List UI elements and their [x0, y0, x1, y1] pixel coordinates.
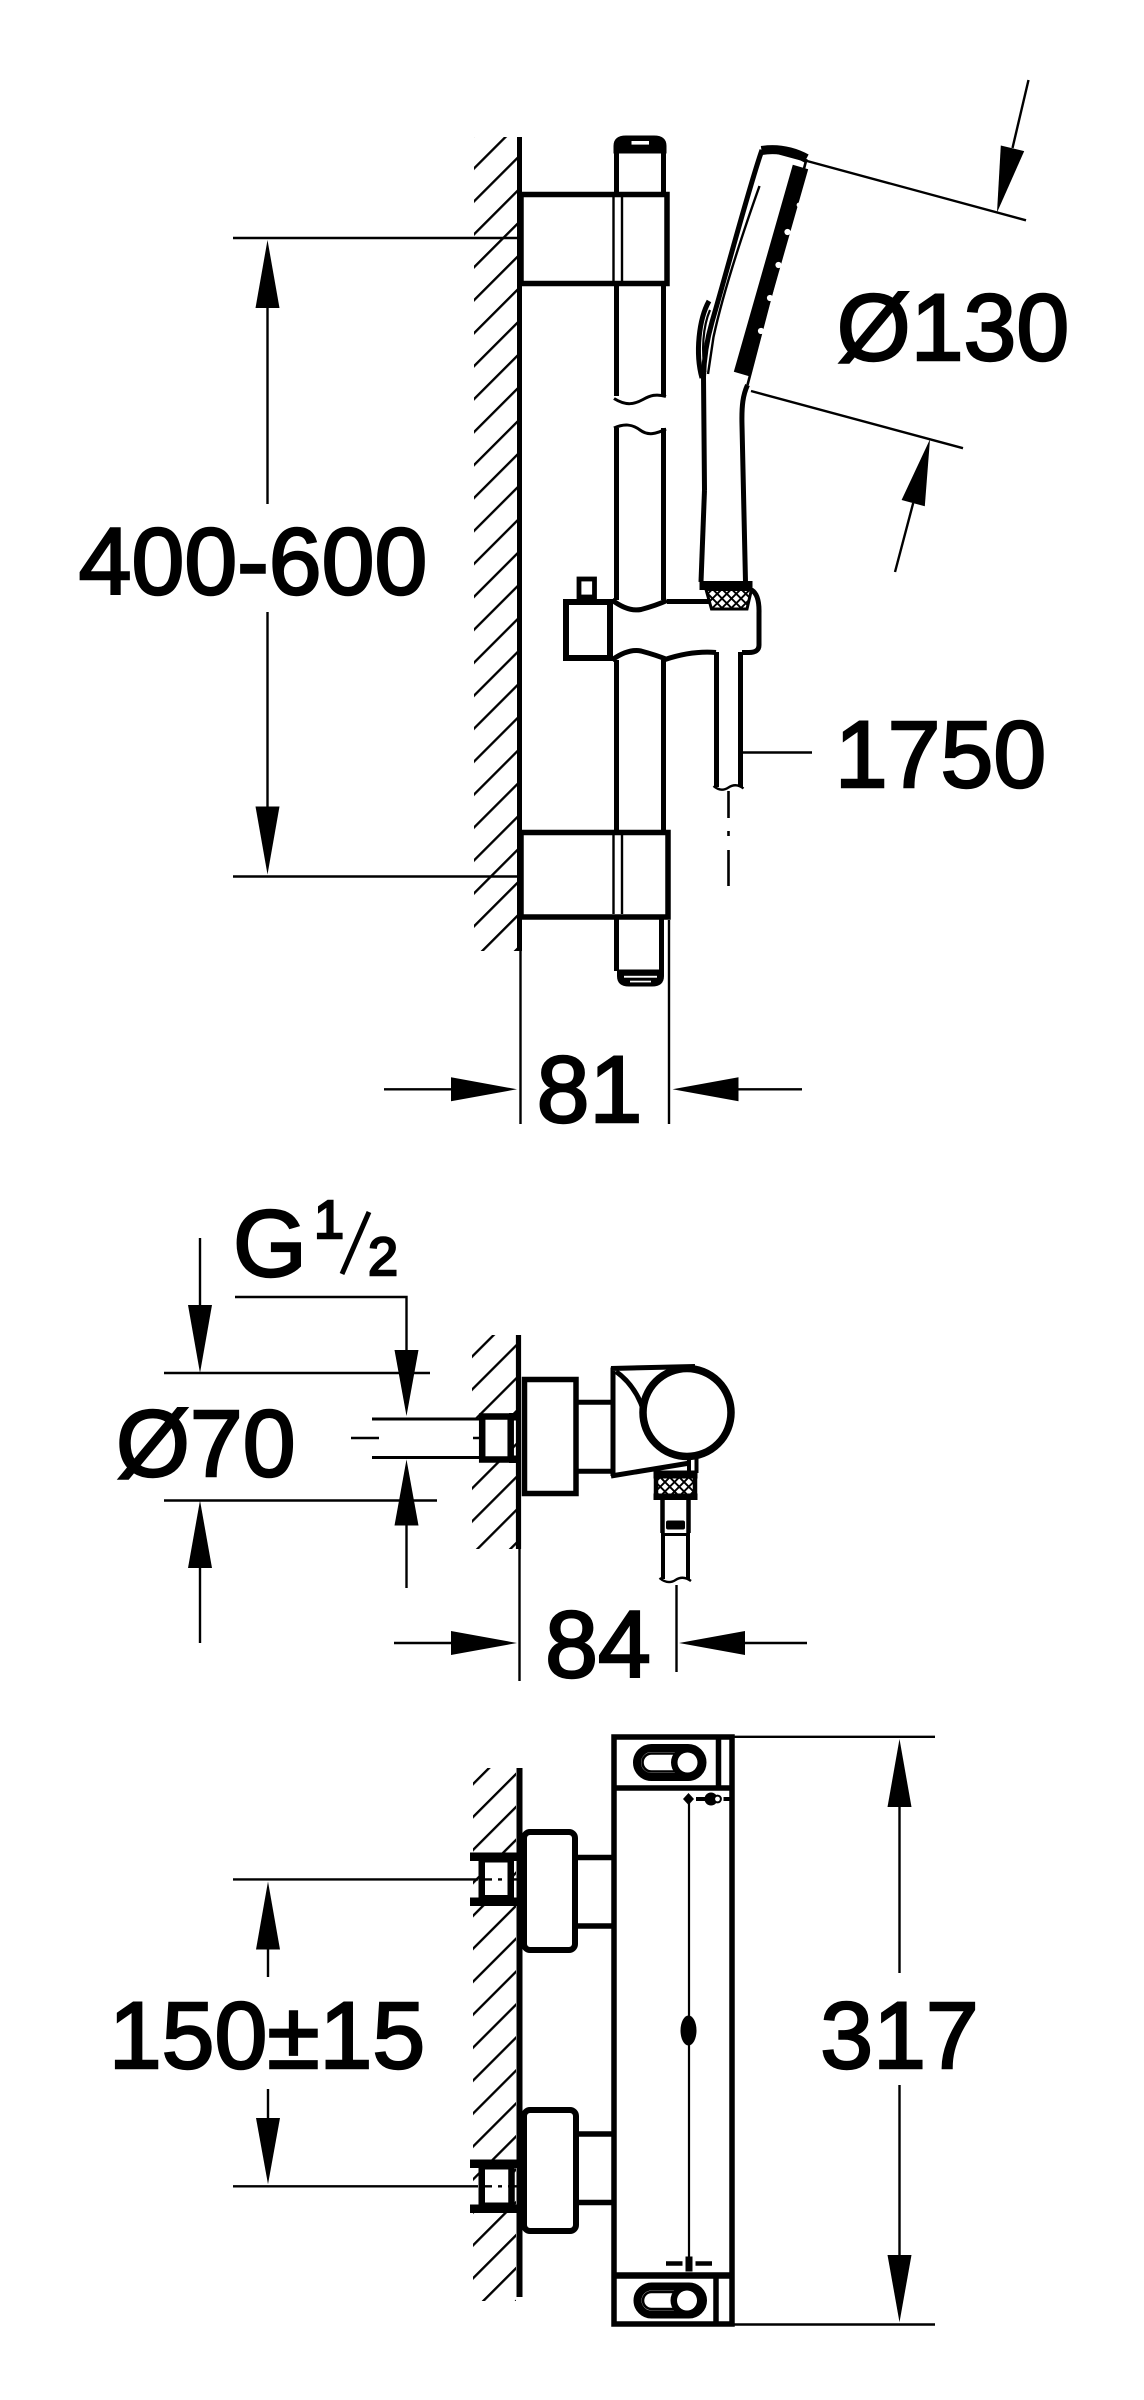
G1/2 callout bracket [235, 1297, 407, 1351]
leader line 1750 [741, 751, 812, 753]
dimension 400-600 line and arrows [266, 306, 268, 504]
outlet axis dash-dot top [683, 1793, 694, 1805]
top cap inner vertical [716, 1737, 722, 1788]
svg-text:317: 317 [820, 1983, 979, 2089]
svg-text:84: 84 [545, 1592, 651, 1698]
bottom cap divider [612, 2272, 735, 2279]
hose dash-dot continuation [727, 791, 730, 886]
slider rail grip top curve [612, 600, 667, 610]
bottom handle stadium [638, 2287, 704, 2315]
lower connector pipe [579, 2134, 615, 2203]
holder wedge body [611, 1367, 695, 1477]
hose fitting below nut [663, 1500, 689, 1533]
slider rail grip bottom curve [612, 651, 667, 660]
handle black collar at holder [700, 581, 753, 590]
slider knob [579, 579, 595, 597]
handle knurled cone in holder [706, 590, 752, 610]
dimension D130 upper arrow [1013, 80, 1029, 148]
dimension 81 arrows [384, 1088, 453, 1090]
svg-text:400-600: 400-600 [79, 509, 428, 615]
dimension 150+-15 extension lines [233, 1878, 478, 1880]
hose lower piece [663, 1536, 688, 1579]
stub centerline dash-dot [351, 1437, 379, 1439]
wall face line middle view [516, 1335, 521, 1549]
upper connector pipe [578, 1858, 615, 1927]
dimension 81 extension lines [519, 950, 521, 1124]
hand shower left outline [704, 150, 763, 490]
holder arm top edge [667, 599, 709, 604]
lower inlet flange bars [470, 2160, 517, 2169]
holder arm right side [742, 590, 759, 653]
dimension 317 extension lines [734, 1736, 935, 1738]
escutcheon [525, 1380, 577, 1494]
svg-text:1750: 1750 [835, 702, 1046, 808]
holder stem [578, 1402, 613, 1471]
square union nut [482, 1417, 511, 1460]
lower inlet dash-dot [480, 2185, 519, 2187]
svg-text:Ø70: Ø70 [116, 1391, 296, 1497]
rail break wave upper [614, 395, 666, 404]
hand shower inner rim line [708, 186, 760, 374]
dimension D130 lower arrow [895, 503, 913, 572]
dimension D70 extension lines [164, 1372, 430, 1374]
holder cup arc [616, 1372, 647, 1428]
upper wall bracket [521, 195, 667, 284]
svg-text:150±15: 150±15 [109, 1983, 425, 2089]
dimension D70 upper arrow [199, 1238, 201, 1307]
svg-text:Ø130: Ø130 [837, 275, 1069, 381]
lower inlet square nut [482, 2166, 512, 2206]
thermostat body outline [614, 1737, 732, 2324]
dimension 317 arrows [888, 1739, 912, 1807]
ball neck lines [689, 1454, 697, 1473]
hand shower handle edges [742, 385, 748, 582]
svg-text:G: G [233, 1191, 307, 1297]
hand shower face line [748, 159, 807, 385]
lower wall bracket [521, 833, 668, 918]
svg-text:2: 2 [368, 1227, 398, 1287]
rail thin lines through upper bracket [614, 197, 623, 281]
upper S-union block [524, 1832, 575, 1950]
rail thin lines through lower bracket [614, 835, 623, 914]
rail top end cap [614, 136, 667, 154]
wall hatching middle view [472, 1335, 516, 1549]
bottom cap inner vertical [713, 2276, 719, 2325]
upper inlet square nut [482, 1859, 511, 1898]
dimension 150+-15 arrows [256, 1882, 280, 1950]
dimension D130 extension lines [772, 152, 1026, 221]
cartridge centerline vertical [688, 1799, 690, 2257]
wall hatching bottom view [473, 1768, 516, 2301]
top handle stadium [637, 1748, 703, 1777]
dimension 84 arrows [394, 1642, 453, 1644]
wall face thin extension for 84 [518, 1549, 520, 1681]
hand shower top cap [762, 150, 807, 159]
outlet axis dash bottom [666, 2261, 683, 2266]
svg-text:81: 81 [537, 1037, 643, 1143]
wall face line bottom view [517, 1768, 523, 2297]
G1/2 upper arrow [395, 1350, 419, 1416]
top cap divider [612, 1785, 735, 1791]
hand shower nozzle strip [742, 167, 801, 374]
svg-text:1: 1 [314, 1190, 344, 1250]
holder ball [643, 1369, 731, 1457]
dimension D70 lower arrow [188, 1501, 212, 1569]
G1/2 lower arrow [395, 1460, 419, 1526]
rail left edge segments [614, 152, 619, 971]
hand shower back button [698, 301, 709, 378]
rail break wave lower [614, 425, 666, 434]
rail bottom end cap [617, 970, 664, 987]
slider body [566, 602, 610, 658]
lower S-union block [524, 2110, 576, 2231]
supply stub pipe [373, 1421, 480, 1458]
hose bottom wavy cut [714, 785, 744, 789]
dimension 400-600 extension lines [233, 237, 517, 239]
knurled hose nut [656, 1474, 695, 1498]
hose wavy cut middle view [660, 1578, 692, 1582]
holder arm bottom edge [665, 652, 716, 659]
shower hose upper piece [717, 652, 741, 787]
upper inlet dash-dot [480, 1878, 519, 1880]
wall face line top view [517, 137, 522, 951]
wall hatching top view [474, 137, 517, 951]
rail right edge segments [662, 152, 664, 971]
temperature stop button [681, 2016, 697, 2046]
upper inlet flange bars [470, 1853, 517, 1862]
hose centerline extension for 84 [675, 1585, 677, 1672]
